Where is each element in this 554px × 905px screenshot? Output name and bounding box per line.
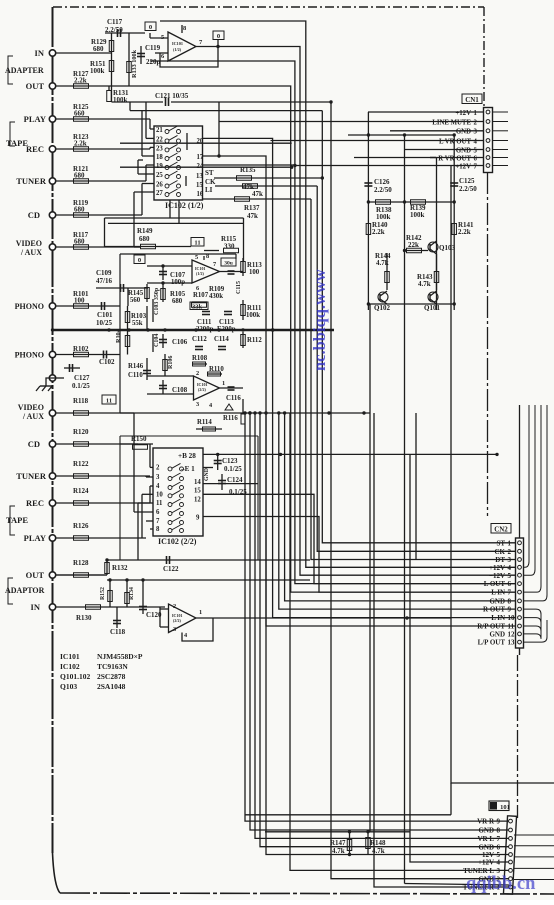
svg-text:6: 6 (196, 285, 199, 292)
svg-text:560: 560 (130, 297, 141, 304)
svg-text:CK: CK (205, 178, 216, 186)
svg-text:PHONO: PHONO (15, 302, 44, 311)
svg-text:nc.bbiqq.www: nc.bbiqq.www (310, 269, 329, 371)
svg-text:L/P OUT: L/P OUT (478, 639, 506, 647)
svg-text:(2/2): (2/2) (198, 387, 206, 392)
svg-text:LINE MUTE: LINE MUTE (432, 119, 471, 126)
svg-text:11: 11 (194, 240, 200, 247)
svg-text:C110: C110 (128, 372, 143, 379)
svg-text:2: 2 (508, 548, 512, 556)
svg-text:4: 4 (156, 483, 160, 490)
svg-text:IC102: IC102 (60, 662, 80, 671)
svg-text:47k: 47k (247, 212, 258, 220)
svg-text:GND: GND (478, 843, 494, 851)
svg-text:680: 680 (139, 235, 150, 243)
svg-text:GND: GND (204, 468, 210, 481)
svg-text:IC101: IC101 (172, 41, 183, 46)
svg-text:7: 7 (508, 589, 512, 597)
svg-text:L IN: L IN (491, 589, 505, 597)
svg-text:(1/2): (1/2) (173, 47, 182, 52)
svg-text:1: 1 (199, 609, 202, 616)
svg-text:7: 7 (474, 163, 478, 170)
svg-text:C112: C112 (192, 336, 207, 343)
svg-text:R103: R103 (131, 313, 147, 320)
svg-text:IN: IN (31, 602, 41, 612)
svg-text:R133 100k: R133 100k (131, 49, 138, 78)
svg-text:R104: R104 (115, 329, 122, 343)
svg-text:6: 6 (474, 155, 478, 162)
svg-text:C127: C127 (74, 374, 90, 382)
svg-text:C113: C113 (219, 319, 234, 326)
svg-text:TC9163N: TC9163N (97, 662, 128, 671)
svg-text:L IN: L IN (491, 614, 505, 622)
svg-text:VIDEO: VIDEO (18, 403, 44, 412)
svg-text:Q103: Q103 (60, 682, 77, 691)
svg-text:R128: R128 (73, 559, 89, 567)
svg-text:10/25: 10/25 (96, 319, 112, 327)
svg-text:12: 12 (194, 497, 201, 504)
svg-text:C101: C101 (97, 311, 113, 319)
svg-text:2: 2 (196, 370, 199, 377)
svg-text:3: 3 (156, 474, 160, 481)
svg-text:23: 23 (156, 145, 163, 152)
svg-text:14: 14 (194, 479, 201, 486)
svg-text:55k: 55k (132, 320, 143, 327)
svg-text:C108: C108 (172, 387, 188, 394)
svg-text:VR R: VR R (477, 818, 495, 826)
svg-text:PLAY: PLAY (24, 114, 46, 124)
svg-text:2.2k: 2.2k (74, 140, 87, 148)
svg-text:IC101: IC101 (60, 652, 80, 661)
svg-text:/ AUX: / AUX (20, 248, 42, 257)
svg-text:C123: C123 (222, 457, 238, 465)
svg-text:680: 680 (74, 206, 85, 214)
svg-text:4: 4 (508, 564, 512, 572)
svg-text:9: 9 (508, 606, 512, 614)
svg-text:11: 11 (106, 398, 112, 405)
svg-text:20: 20 (197, 138, 204, 145)
svg-text:GND: GND (489, 598, 505, 606)
svg-text:C115: C115 (236, 281, 242, 294)
svg-text:R111: R111 (247, 305, 262, 312)
svg-text:VR L: VR L (477, 835, 494, 843)
svg-text:OUT: OUT (26, 81, 45, 91)
svg-text:3: 3 (173, 626, 176, 633)
svg-text:100k: 100k (113, 96, 128, 104)
svg-text:R122: R122 (73, 460, 89, 468)
svg-text:R118: R118 (73, 397, 89, 405)
svg-text:R149: R149 (137, 227, 153, 235)
svg-text:11: 11 (508, 623, 515, 631)
svg-text:C122: C122 (163, 565, 179, 573)
svg-text:0: 0 (217, 33, 220, 40)
svg-text:VIDEO: VIDEO (16, 239, 42, 248)
svg-text:101: 101 (500, 804, 510, 811)
svg-text:8: 8 (497, 827, 501, 835)
svg-text:3: 3 (474, 129, 478, 136)
svg-text:R132: R132 (112, 564, 128, 572)
svg-text:10: 10 (508, 614, 516, 622)
svg-text:2: 2 (474, 119, 478, 126)
svg-text:100k: 100k (376, 213, 391, 221)
svg-text:+B 28: +B 28 (178, 452, 196, 460)
svg-text:C103 350p: C103 350p (154, 287, 160, 315)
svg-text:2.2k: 2.2k (458, 228, 471, 236)
svg-text:ST: ST (496, 539, 505, 547)
svg-text:5: 5 (195, 254, 198, 261)
svg-text:R147: R147 (330, 839, 346, 847)
svg-text:100: 100 (249, 269, 260, 276)
svg-text:21: 21 (156, 127, 163, 134)
svg-text:2200p: 2200p (196, 326, 214, 333)
svg-text:/ AUX: / AUX (22, 412, 44, 421)
svg-text:R116: R116 (223, 415, 238, 422)
svg-text:5: 5 (508, 572, 512, 580)
svg-text:13: 13 (508, 639, 516, 647)
svg-text:C111: C111 (197, 319, 212, 326)
svg-text:TAPE: TAPE (6, 515, 28, 525)
svg-text:8: 8 (206, 253, 209, 260)
svg-text:7: 7 (213, 261, 216, 268)
svg-text:100k: 100k (410, 211, 425, 219)
svg-text:CN2: CN2 (494, 526, 508, 534)
svg-text:R152: R152 (100, 587, 106, 600)
svg-text:R106: R106 (168, 356, 174, 369)
svg-text:11: 11 (156, 500, 163, 507)
svg-text:L OUT: L OUT (484, 580, 506, 588)
svg-text:R108: R108 (192, 355, 208, 362)
svg-text:4.7k: 4.7k (332, 847, 345, 855)
svg-text:C119: C119 (145, 44, 161, 52)
svg-text:(1/2): (1/2) (196, 271, 204, 276)
svg-text:ADAPTER: ADAPTER (5, 66, 44, 75)
svg-text:REC: REC (26, 144, 44, 154)
svg-text:R105: R105 (170, 291, 186, 298)
svg-text:Q101: Q101 (424, 304, 440, 312)
svg-text:7: 7 (156, 518, 160, 525)
svg-text:C106: C106 (172, 339, 188, 346)
svg-text:R146: R146 (128, 363, 144, 370)
svg-text:GND: GND (456, 147, 471, 154)
svg-text:0.1/25: 0.1/25 (224, 465, 242, 473)
svg-text:330: 330 (224, 243, 235, 251)
svg-text:18: 18 (156, 154, 163, 161)
svg-text:E200p: E200p (217, 326, 236, 333)
svg-text:100k: 100k (90, 67, 105, 75)
svg-text:C104: C104 (154, 334, 160, 347)
svg-text:R OUT: R OUT (483, 606, 505, 614)
svg-text:REC: REC (26, 498, 44, 508)
svg-text:7: 7 (497, 835, 501, 843)
svg-text:9: 9 (196, 515, 200, 522)
svg-text:17: 17 (197, 154, 204, 161)
svg-text:12: 12 (508, 631, 516, 639)
svg-text:4.7k: 4.7k (418, 280, 431, 288)
svg-text:C102: C102 (99, 358, 115, 366)
svg-text:6: 6 (497, 843, 501, 851)
svg-text:IC102 (1/2): IC102 (1/2) (165, 201, 204, 210)
svg-text:2.2/50: 2.2/50 (459, 185, 477, 193)
svg-text:8: 8 (156, 526, 160, 533)
svg-text:C117: C117 (107, 18, 123, 26)
svg-text:26: 26 (156, 182, 163, 189)
svg-text:PHONO: PHONO (15, 351, 44, 360)
svg-text:R126: R126 (73, 522, 89, 530)
svg-text:IC102 (2/2): IC102 (2/2) (158, 537, 197, 546)
svg-text:R148: R148 (370, 839, 386, 847)
svg-text:47/16: 47/16 (96, 277, 112, 285)
svg-text:2.2/50: 2.2/50 (374, 186, 392, 194)
svg-text:2.2k: 2.2k (372, 228, 385, 236)
svg-text:CD: CD (28, 210, 40, 220)
svg-text:R102: R102 (73, 345, 89, 353)
svg-text:9: 9 (497, 818, 501, 826)
svg-text:2SC2878: 2SC2878 (97, 672, 126, 681)
svg-text:R130: R130 (76, 614, 92, 622)
svg-text:R134: R134 (129, 587, 135, 600)
svg-text:C126: C126 (374, 178, 390, 186)
svg-text:680: 680 (74, 172, 85, 180)
svg-text:Q103: Q103 (439, 244, 455, 252)
svg-text:−12V: −12V (489, 572, 505, 580)
svg-text:15: 15 (196, 182, 203, 189)
svg-text:+12V: +12V (455, 110, 471, 117)
svg-text:Q101.102: Q101.102 (60, 672, 90, 681)
svg-text:16: 16 (197, 191, 204, 198)
svg-text:CK: CK (495, 548, 506, 556)
svg-text:5: 5 (474, 147, 478, 154)
svg-text:IN: IN (35, 48, 45, 58)
svg-text:25: 25 (156, 172, 163, 179)
svg-text:qqibb.cn: qqibb.cn (466, 874, 536, 894)
svg-text:GND: GND (478, 827, 494, 835)
svg-text:TAPE: TAPE (6, 138, 28, 148)
svg-text:L VR OUT: L VR OUT (439, 138, 471, 145)
svg-text:C118: C118 (110, 628, 126, 636)
svg-text:4.7k: 4.7k (372, 847, 385, 855)
svg-text:C124: C124 (227, 476, 243, 484)
svg-text:ADAPTOR: ADAPTOR (5, 586, 45, 595)
svg-text:(2/2): (2/2) (173, 618, 181, 623)
svg-text:660: 660 (74, 110, 85, 118)
svg-text:PLAY: PLAY (24, 533, 46, 543)
svg-text:+12V: +12V (478, 859, 494, 867)
svg-text:C109: C109 (96, 269, 112, 277)
svg-text:6: 6 (508, 580, 512, 588)
svg-text:19: 19 (156, 163, 163, 170)
svg-text:R124: R124 (73, 487, 89, 495)
svg-text:100k: 100k (246, 312, 260, 319)
svg-text:C116: C116 (226, 395, 241, 402)
svg-text:1: 1 (222, 380, 225, 387)
svg-text:2: 2 (156, 464, 160, 471)
svg-text:C114: C114 (214, 336, 229, 343)
svg-text:DT: DT (495, 556, 505, 564)
svg-text:4: 4 (474, 138, 478, 145)
svg-text:680: 680 (74, 238, 85, 246)
svg-text:OUT: OUT (26, 570, 45, 580)
svg-text:100: 100 (74, 297, 85, 305)
svg-text:R137: R137 (244, 204, 260, 212)
svg-text:R109: R109 (209, 286, 225, 293)
svg-text:R113: R113 (247, 262, 262, 269)
svg-text:6: 6 (156, 509, 160, 516)
svg-text:3: 3 (196, 401, 199, 408)
svg-text:R/P OUT: R/P OUT (477, 623, 505, 631)
svg-text:C107: C107 (170, 272, 186, 279)
svg-text:R114: R114 (197, 419, 212, 426)
svg-text:1: 1 (508, 539, 512, 547)
svg-text:10: 10 (156, 491, 163, 498)
svg-text:430k: 430k (209, 293, 223, 300)
svg-text:ST: ST (205, 169, 214, 177)
svg-text:Q102: Q102 (374, 304, 390, 312)
svg-text:3: 3 (508, 556, 512, 564)
svg-text:2: 2 (173, 603, 176, 610)
svg-text:R120: R120 (73, 428, 89, 436)
svg-text:C121 10/35: C121 10/35 (155, 92, 189, 100)
svg-text:CN1: CN1 (465, 96, 479, 104)
svg-text:CD: CD (28, 439, 40, 449)
svg-text:8: 8 (508, 598, 512, 606)
svg-text:+12V: +12V (455, 163, 471, 170)
svg-text:24: 24 (197, 163, 204, 170)
svg-text:680: 680 (93, 45, 104, 53)
svg-text:0: 0 (149, 24, 152, 31)
svg-text:R107: R107 (193, 292, 209, 299)
svg-text:R112: R112 (247, 337, 262, 344)
svg-text:NJM4558D×P: NJM4558D×P (97, 652, 143, 661)
svg-text:30u: 30u (224, 261, 233, 267)
svg-text:–E 1: –E 1 (180, 465, 195, 473)
svg-text:220p: 220p (146, 58, 161, 66)
svg-text:680: 680 (172, 298, 183, 305)
svg-text:GND: GND (489, 631, 505, 639)
svg-text:22: 22 (156, 136, 163, 143)
svg-text:13: 13 (196, 173, 203, 180)
svg-text:27: 27 (156, 190, 163, 197)
svg-text:15: 15 (194, 488, 201, 495)
svg-text:GND: GND (456, 129, 471, 136)
svg-text:C125: C125 (459, 177, 475, 185)
svg-text:33k: 33k (192, 304, 203, 311)
svg-text:+12V: +12V (489, 564, 505, 572)
svg-text:47k: 47k (252, 190, 263, 198)
svg-text:1: 1 (474, 110, 478, 117)
svg-text:TUNER: TUNER (16, 176, 47, 186)
svg-text:2SA1048: 2SA1048 (97, 682, 126, 691)
svg-text:2.2k: 2.2k (74, 77, 87, 85)
svg-text:TUNER: TUNER (16, 471, 47, 481)
svg-text:R145: R145 (128, 290, 144, 297)
svg-text:0: 0 (138, 257, 141, 264)
svg-text:LI: LI (205, 186, 213, 194)
svg-text:4: 4 (497, 859, 501, 867)
svg-text:0.1/25: 0.1/25 (72, 382, 90, 390)
svg-text:R VR OUT: R VR OUT (438, 155, 471, 162)
